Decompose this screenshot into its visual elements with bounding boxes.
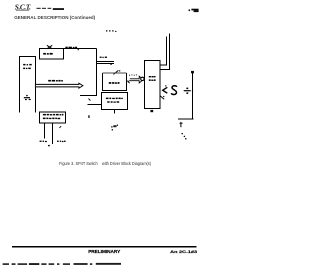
switch arm	[114, 70, 119, 74]
stray tick mark	[88, 115, 89, 118]
lower box wire 1	[44, 123, 46, 139]
arrow tail diagonal	[126, 80, 130, 83]
page corner mark	[188, 9, 190, 11]
wire down segment	[96, 49, 98, 96]
tall left box divide mark	[24, 95, 31, 100]
antenna feed line B	[160, 34, 170, 70]
wire stub left at node	[80, 95, 97, 97]
footer rule	[12, 246, 196, 248]
svg-text:Figure 3. SP4T Switch with: Figure 3. SP4T Switch with Driver Block …	[59, 161, 152, 166]
mid box2 label line 2	[107, 101, 119, 102]
mid box2	[102, 93, 128, 110]
lower box label line 2	[43, 118, 60, 120]
black square below right box	[150, 110, 153, 112]
right box label line 1	[149, 76, 156, 77]
wire1 label dots	[40, 141, 47, 142]
small hollow arrow	[129, 75, 130, 76]
small tick right of wires	[59, 126, 61, 128]
component glyph left	[163, 87, 168, 93]
wire2 label dots	[57, 141, 66, 142]
tall left box label line 2	[23, 68, 30, 70]
mid box2 label line 1	[106, 98, 123, 100]
big arrow label	[48, 80, 63, 82]
small diag tick below node	[89, 99, 91, 101]
logo underline swash	[16, 9, 29, 12]
wire into mid box2 from left	[88, 104, 102, 106]
component glyph right	[184, 90, 191, 91]
bus end tick	[110, 63, 112, 66]
big hollow arrow	[35, 83, 83, 88]
hook mark at right box corner	[160, 96, 164, 99]
lower box label line 1	[43, 114, 64, 116]
component glyph middle	[171, 86, 177, 95]
tall left box (phase shifter)	[20, 57, 36, 113]
ellipsis dots	[106, 30, 108, 32]
tick below mid box2	[114, 110, 116, 114]
mid box1 label	[109, 82, 120, 84]
right vertical stub top dot	[191, 71, 194, 73]
antenna feed line A	[160, 37, 167, 66]
footer fine print dashes	[3, 263, 121, 265]
svg-text:An 2C-1#3: An 2C-1#3	[170, 249, 198, 254]
dotted diag marks	[181, 133, 183, 135]
top box label	[43, 53, 52, 55]
logo tagline dashes	[37, 8, 41, 9]
wire from top box to right	[64, 48, 97, 50]
right vertical line	[192, 72, 194, 120]
right box antenna switch	[145, 61, 161, 109]
svg-text:PRELIMINARY: PRELIMINARY	[88, 249, 121, 255]
wire label 2(4)f	[65, 47, 79, 50]
mid box1 SP2T	[103, 73, 127, 90]
small dot below label1	[48, 145, 50, 146]
ground mark cluster	[113, 125, 116, 127]
bus label	[100, 57, 107, 58]
top box U1	[40, 49, 64, 60]
bottom bar	[178, 118, 194, 120]
lower left box power control	[40, 112, 66, 123]
svg-text:GENERAL DESCRIPTION (Continued: GENERAL DESCRIPTION (Continued)	[14, 15, 95, 21]
bus double lines	[97, 61, 114, 63]
right box label line 2	[149, 79, 156, 81]
lower box wire 2	[52, 123, 54, 144]
tall left box label line 1	[23, 64, 31, 66]
tick below bar	[180, 122, 182, 127]
X mark on top box	[47, 45, 52, 49]
port circle	[141, 77, 144, 80]
